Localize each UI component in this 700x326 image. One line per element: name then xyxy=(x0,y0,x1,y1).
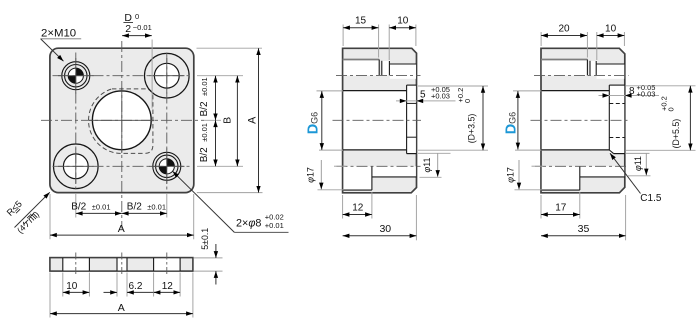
hidden recess contour (dashed) xyxy=(89,89,153,153)
svg-text:φ11: φ11 xyxy=(422,157,432,172)
MIDDLE SECTION VIEW (30) xyxy=(333,48,422,193)
dimension 30 bottom middle xyxy=(343,195,417,240)
dimension phi11 right xyxy=(626,153,651,175)
svg-text:φ17: φ17 xyxy=(506,167,516,183)
solid hole crosshairs xyxy=(58,58,185,184)
svg-text:(D+3.5): (D+3.5) xyxy=(467,114,477,144)
dimension D G6 right xyxy=(504,91,542,150)
svg-text:(D+5.5): (D+5.5) xyxy=(671,119,681,149)
svg-text:2×φ8: 2×φ8 xyxy=(236,218,261,230)
svg-text:A: A xyxy=(118,302,125,314)
plate outline xyxy=(50,48,194,192)
svg-text:12: 12 xyxy=(162,281,174,292)
svg-text:10: 10 xyxy=(605,24,617,35)
svg-text:+0.01: +0.01 xyxy=(265,221,284,230)
white holes xyxy=(343,60,416,190)
svg-text:6.2: 6.2 xyxy=(129,281,143,292)
svg-text:A: A xyxy=(247,116,259,124)
dimension 5 +-0.1 strip xyxy=(194,228,223,285)
dimension 12 bottom middle xyxy=(343,192,372,219)
dimension phi17 right xyxy=(506,160,544,190)
dimension phi17 middle xyxy=(306,160,346,190)
svg-text:A: A xyxy=(118,223,125,235)
svg-text:15: 15 xyxy=(355,16,367,27)
strip body xyxy=(50,258,193,272)
svg-text:17: 17 xyxy=(555,203,567,214)
svg-text:10: 10 xyxy=(397,16,409,27)
svg-text:12: 12 xyxy=(352,203,364,214)
label R<=5 (4 places) xyxy=(5,192,50,235)
dimension 10 top right xyxy=(597,24,625,60)
dimension D G6 middle xyxy=(305,91,343,150)
svg-text:B/2±0.01: B/2±0.01 xyxy=(199,123,210,162)
dimension 10 top middle xyxy=(389,16,416,61)
dimension A bottom xyxy=(50,194,194,239)
svg-text:−0.01: −0.01 xyxy=(133,23,152,32)
body xyxy=(343,48,417,193)
hole counterbore top-right xyxy=(145,53,190,98)
dimension (D+3.5) +0.2/0 xyxy=(418,86,488,150)
svg-text:10: 10 xyxy=(66,281,78,292)
STRIP SIDE VIEW xyxy=(50,253,193,277)
svg-text:0: 0 xyxy=(463,99,472,103)
dimension (D+5.5) +0.2/0 xyxy=(626,86,696,151)
svg-text:5: 5 xyxy=(420,90,426,101)
svg-text:B/2±0.01: B/2±0.01 xyxy=(71,201,110,212)
hole M10 top-left xyxy=(62,62,90,90)
svg-text:+0.03: +0.03 xyxy=(431,92,450,101)
centerlines front view xyxy=(41,41,204,229)
svg-text:φ17: φ17 xyxy=(306,167,316,183)
svg-text:B/2±0.01: B/2±0.01 xyxy=(199,77,210,116)
dimension 8 +0.05/+0.03 xyxy=(599,83,660,99)
dimension 12 strip xyxy=(154,273,181,297)
white holes xyxy=(542,60,624,190)
dimension 15 xyxy=(343,16,379,58)
centerlines xyxy=(333,75,422,166)
dimension B xyxy=(223,76,238,167)
dimension B/2 right xyxy=(197,76,243,167)
strip holes xyxy=(63,258,180,270)
dimension A strip xyxy=(50,273,193,318)
svg-text:φ11: φ11 xyxy=(633,156,643,171)
dimension phi11 middle xyxy=(418,153,451,177)
body xyxy=(541,48,625,193)
svg-text:B/2±0.01: B/2±0.01 xyxy=(127,201,166,212)
hole counterbore bottom-left xyxy=(54,144,99,189)
svg-text:2: 2 xyxy=(125,23,131,35)
svg-text:B: B xyxy=(223,117,234,124)
dimension 20 xyxy=(541,24,587,58)
svg-text:5±0.1: 5±0.1 xyxy=(200,228,210,250)
svg-text:+0.03: +0.03 xyxy=(637,90,656,99)
centerlines xyxy=(531,75,630,166)
svg-text:30: 30 xyxy=(379,223,391,235)
svg-text:0: 0 xyxy=(135,12,139,21)
svg-text:20: 20 xyxy=(558,24,570,35)
label C1.5 xyxy=(610,153,662,204)
label 2x phi8 xyxy=(173,171,289,232)
dimension 17 bottom right xyxy=(541,192,580,219)
svg-text:8: 8 xyxy=(629,86,635,97)
RIGHT SECTION VIEW (35) xyxy=(531,48,630,193)
center bore D xyxy=(92,91,151,150)
label 2xM10 xyxy=(40,27,81,61)
svg-text:35: 35 xyxy=(578,223,590,235)
svg-text:C1.5: C1.5 xyxy=(640,193,662,204)
svg-text:2×M10: 2×M10 xyxy=(41,27,76,39)
dimension 35 bottom right xyxy=(541,195,626,240)
dimension A right xyxy=(197,48,263,192)
hole phi8 bottom-right xyxy=(153,152,181,180)
feature lines xyxy=(343,60,417,191)
dimension 10 strip xyxy=(63,273,90,297)
feature lines xyxy=(541,60,625,191)
svg-text:0: 0 xyxy=(667,107,676,111)
dimension 5 +0.05/+0.03 xyxy=(396,85,456,103)
dimension B/2 bottom xyxy=(71,194,167,218)
dimension D/2 xyxy=(122,12,152,109)
dimension 6.2 strip xyxy=(104,273,156,297)
